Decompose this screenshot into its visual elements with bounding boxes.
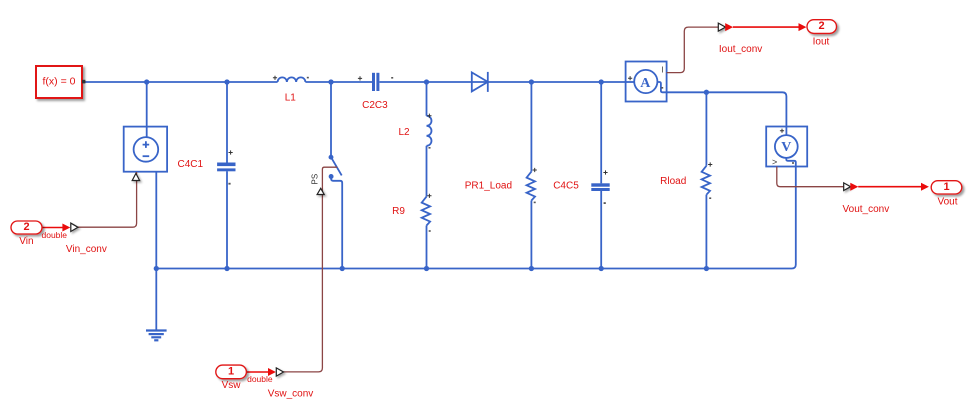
svg-text:f(x) = 0: f(x) = 0 xyxy=(43,75,76,87)
PS wire voltmeter to Vout_conv xyxy=(777,167,844,187)
wire PR1 to bus xyxy=(530,201,532,269)
svg-text:A: A xyxy=(640,76,651,91)
svg-text:2: 2 xyxy=(23,221,29,233)
svg-text:Vin_conv: Vin_conv xyxy=(66,244,107,255)
voltage source U1 box xyxy=(124,127,167,172)
wire PR1 branch top xyxy=(530,82,532,172)
converter triangle Vin_conv xyxy=(71,223,78,231)
svg-text:PR1_Load: PR1_Load xyxy=(465,181,512,192)
inport Vsw xyxy=(216,365,247,379)
svg-text:Vsw: Vsw xyxy=(222,380,242,391)
polarity marks xyxy=(229,76,785,198)
voltmeter U3 box xyxy=(766,127,807,167)
inductor L2 xyxy=(427,116,432,146)
wire switch lower jog to bus xyxy=(331,177,342,269)
wire C4C1 branch top xyxy=(226,82,228,163)
wire top bus left segment xyxy=(85,81,278,83)
svg-text:Vout_conv: Vout_conv xyxy=(843,204,890,215)
wire C4C5 to bus xyxy=(600,191,602,269)
converter triangle Vout_conv xyxy=(844,183,851,191)
svg-text:C4C1: C4C1 xyxy=(178,159,204,170)
svg-text:C2C3: C2C3 xyxy=(362,100,388,111)
svg-text:Vin: Vin xyxy=(19,236,33,247)
inductor L1 xyxy=(278,77,306,82)
capacitor C4C5 xyxy=(591,183,609,191)
wire ammeter out to voltmeter xyxy=(667,92,787,126)
solver block f(x)=0 xyxy=(36,66,82,98)
PS wire ammeter to Iout_conv xyxy=(667,27,719,73)
switch blade xyxy=(331,157,342,175)
svg-text:2: 2 xyxy=(818,20,824,32)
PS wire Vsw_conv to switch xyxy=(283,167,337,372)
wire between L2 and R9 xyxy=(426,146,428,197)
svg-text:Vout: Vout xyxy=(937,196,957,207)
minus/dot marks xyxy=(228,77,794,232)
capacitor C2C3 xyxy=(372,73,379,91)
svg-text:L1: L1 xyxy=(285,93,297,104)
wire switch branch top xyxy=(330,82,332,157)
svg-text:1: 1 xyxy=(228,365,234,377)
wire source branch xyxy=(146,82,148,127)
PS port triangle switch xyxy=(317,188,324,194)
converter triangle Iout_conv xyxy=(718,23,725,31)
svg-text:Iout_conv: Iout_conv xyxy=(719,44,762,55)
svg-text:I: I xyxy=(661,66,663,75)
svg-text:PS: PS xyxy=(310,174,319,185)
wire L2 branch top xyxy=(426,82,428,116)
signal wire Vin port to conv xyxy=(42,23,929,376)
PS port triangle source xyxy=(132,173,139,180)
resistor Rload xyxy=(702,166,710,195)
resistor R9 xyxy=(422,197,430,226)
wire C4C5 branch top xyxy=(600,82,602,183)
wire C4C1 branch bottom xyxy=(226,171,228,268)
svg-text:double: double xyxy=(247,374,273,384)
wire Rload branch xyxy=(705,92,707,166)
resistor PR1_Load xyxy=(527,172,535,201)
wire R9 to bus xyxy=(426,226,428,269)
wire voltmeter to bottom bus xyxy=(156,167,796,269)
wire Rload to bus xyxy=(705,195,707,269)
solver port square xyxy=(82,80,85,84)
svg-text:double: double xyxy=(42,230,68,240)
converter triangle Vsw_conv xyxy=(276,368,283,376)
wire top bus middle segment xyxy=(305,81,372,83)
svg-text:Vsw_conv: Vsw_conv xyxy=(268,389,314,400)
wire top bus right segment xyxy=(380,81,626,83)
svg-text:Rload: Rload xyxy=(660,176,686,187)
svg-text:R9: R9 xyxy=(392,206,405,217)
wire source bottom to bus xyxy=(155,172,157,269)
outport Iout xyxy=(807,20,837,34)
svg-text:V: V xyxy=(781,140,791,155)
capacitor C4C1 xyxy=(217,163,235,172)
diode D1 xyxy=(472,72,488,92)
svg-text:Iout: Iout xyxy=(813,36,830,47)
svg-text:>: > xyxy=(772,157,777,167)
inport Vin xyxy=(11,221,42,234)
ground xyxy=(146,269,167,341)
svg-text:C4C5: C4C5 xyxy=(553,181,579,192)
svg-text:L2: L2 xyxy=(398,127,410,138)
ammeter U2 box xyxy=(626,62,667,102)
svg-text:1: 1 xyxy=(943,181,949,193)
outport Vout xyxy=(931,181,962,194)
PS wire Vin_conv to source xyxy=(78,172,137,227)
